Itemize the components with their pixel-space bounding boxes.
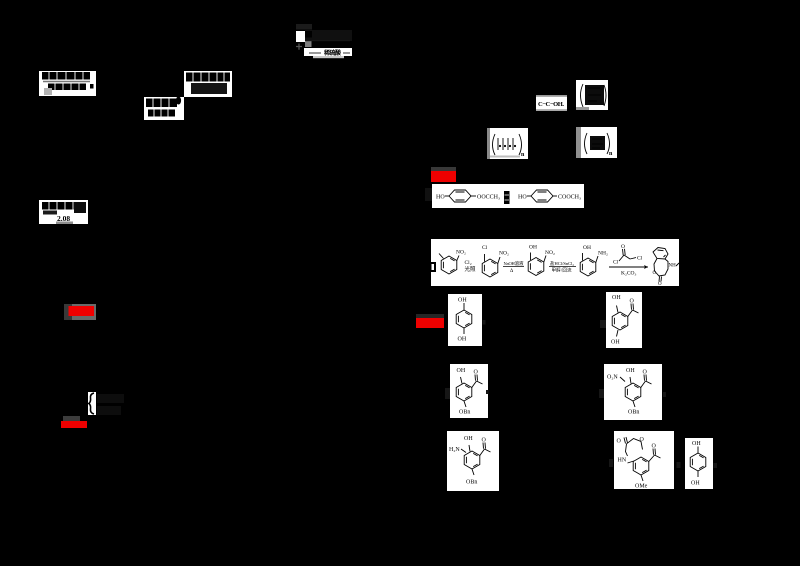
svg-text:O: O xyxy=(630,299,635,305)
svg-text:稀硫酸: 稀硫酸 xyxy=(323,49,342,57)
svg-text:NO₂: NO₂ xyxy=(456,250,466,256)
svg-text:OH: OH xyxy=(458,337,467,343)
svg-text:Cl: Cl xyxy=(637,256,643,262)
svg-text:NO₂: NO₂ xyxy=(499,251,509,257)
svg-text:C−C−OH.: C−C−OH. xyxy=(538,101,564,108)
svg-text:O: O xyxy=(617,439,622,445)
svg-text:OOCCH₃: OOCCH₃ xyxy=(477,195,500,201)
svg-text:Cl: Cl xyxy=(482,245,488,251)
svg-text:K₂CO₃: K₂CO₃ xyxy=(621,271,637,277)
svg-text:O: O xyxy=(640,437,645,443)
svg-text:OH: OH xyxy=(692,441,701,447)
svg-text:OH: OH xyxy=(612,295,621,301)
svg-text:OH: OH xyxy=(529,245,537,251)
svg-text:OBn: OBn xyxy=(459,410,470,416)
svg-text:H₂N: H₂N xyxy=(449,447,460,453)
svg-text:O: O xyxy=(652,444,657,450)
svg-text:O: O xyxy=(621,244,625,250)
svg-text:NaOH溶液: NaOH溶液 xyxy=(504,260,525,267)
svg-text:HO: HO xyxy=(518,195,527,201)
svg-text:盐HCl/SnCl₂: 盐HCl/SnCl₂ xyxy=(550,260,574,266)
svg-text:Cl₂: Cl₂ xyxy=(465,260,472,266)
svg-text:甲醇/回流: 甲醇/回流 xyxy=(552,267,573,274)
svg-text:NH: NH xyxy=(669,264,677,269)
svg-text:NO₂: NO₂ xyxy=(545,250,555,256)
svg-text:OH: OH xyxy=(464,436,473,442)
svg-text:O₂N: O₂N xyxy=(607,375,618,381)
svg-text:COOCH₃: COOCH₃ xyxy=(558,195,581,201)
svg-text:O: O xyxy=(643,370,648,376)
svg-text:Cl: Cl xyxy=(613,260,619,266)
svg-text:OH: OH xyxy=(458,298,467,304)
svg-text:OH: OH xyxy=(611,340,620,346)
svg-text:OH: OH xyxy=(626,368,635,374)
svg-text:OH: OH xyxy=(457,368,466,374)
svg-text:O: O xyxy=(653,271,657,276)
svg-text:HO: HO xyxy=(436,195,445,201)
svg-text:O: O xyxy=(658,282,662,287)
svg-text:NH₂: NH₂ xyxy=(598,251,608,257)
svg-text:OH: OH xyxy=(583,245,591,251)
svg-text:OMe: OMe xyxy=(635,484,648,490)
svg-text:O: O xyxy=(482,438,487,444)
svg-text:OH: OH xyxy=(691,481,700,487)
svg-text:OBn: OBn xyxy=(466,480,477,486)
svg-text:HN: HN xyxy=(618,458,627,464)
svg-text:OBn: OBn xyxy=(628,410,639,416)
svg-text:O: O xyxy=(474,370,479,376)
svg-text:光照: 光照 xyxy=(465,265,476,273)
